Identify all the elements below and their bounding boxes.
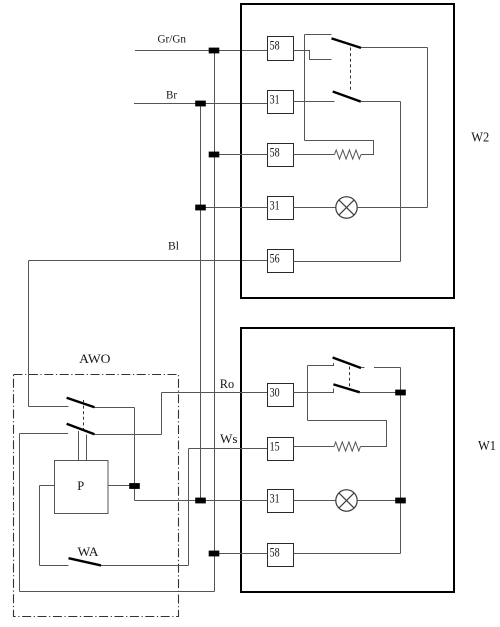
- wire Ws: [189, 448, 268, 450]
- wire bottom rail: [20, 591, 215, 593]
- terminal 31 (W2 row 4): [268, 197, 294, 220]
- wire S6 feed from bottom rail: [20, 433, 69, 435]
- svg-text:Ws: Ws: [220, 432, 238, 446]
- svg-text:AWO: AWO: [79, 351, 110, 366]
- wire S5 output drop to P junction: [134, 408, 136, 501]
- wire Bl horizontal: [29, 260, 268, 262]
- lamp E2: [336, 490, 357, 511]
- junction bus B / Br: [195, 101, 206, 107]
- svg-text:58: 58: [270, 546, 280, 560]
- block W1 border: [241, 328, 454, 592]
- wire S3 blade stub: [361, 367, 365, 369]
- wire resistor R1 return loop: [305, 141, 374, 155]
- wire S6 output riser to Ro: [161, 393, 163, 435]
- wire WA left contact: [40, 565, 69, 567]
- wire switch output drop (x=400): [400, 368, 402, 554]
- wire terminal 15 to resistor R2: [294, 446, 335, 448]
- resistor R1: [335, 150, 362, 159]
- bus B vertical (Br 31-circuit): [200, 104, 202, 501]
- wire lamp E2 to switch drop: [357, 500, 400, 502]
- terminal 58 (W1 row 4): [268, 544, 294, 567]
- svg-text:W2: W2: [471, 131, 489, 146]
- resistor R2: [334, 442, 361, 451]
- terminal 58 (W2 row 1): [268, 37, 294, 61]
- terminal 15 (W1 row 2): [268, 438, 294, 461]
- dashed mechanical link S3-S4: [349, 367, 351, 388]
- wire WA output: [101, 565, 189, 567]
- svg-text:15: 15: [270, 440, 280, 454]
- svg-text:30: 30: [270, 386, 280, 400]
- wire bottom rail riser: [19, 434, 21, 592]
- terminal 56 (W2 row 5): [268, 250, 294, 273]
- junction bus A / W1 row 4: [209, 551, 220, 557]
- junction W1 switch output: [395, 390, 406, 396]
- dashed mechanical link S5-S6: [83, 400, 85, 429]
- wire to switch S2: [294, 101, 335, 103]
- dashed mechanical link S1-S2: [350, 48, 352, 93]
- svg-text:31: 31: [270, 492, 280, 506]
- wire Ro: [162, 392, 268, 394]
- wire S6 output: [95, 434, 162, 436]
- wire S4 output: [360, 392, 401, 394]
- wire switch S3 fixed contact: [308, 363, 334, 366]
- terminal 31 (W1 row 3): [268, 490, 294, 513]
- wire terminal 31 to lamp E1: [294, 207, 336, 209]
- wire P left drop to WA: [39, 486, 41, 566]
- wire Gr/Gn: [135, 50, 268, 52]
- svg-text:31: 31: [270, 93, 280, 107]
- junction bus A / Gr/Gn: [209, 48, 220, 54]
- mechanical link switches to P unit: [79, 431, 87, 460]
- wire common vertical to resistor loop W1: [307, 366, 309, 421]
- svg-text:58: 58: [270, 146, 280, 160]
- wire P right: [108, 485, 135, 487]
- wire switch S1 fixed contact: [305, 34, 332, 36]
- svg-text:Ro: Ro: [220, 377, 234, 391]
- bus A vertical (Gr/Gn 58-circuit): [214, 51, 216, 592]
- wire S3 open contact: [374, 367, 401, 369]
- svg-text:P: P: [77, 479, 84, 493]
- svg-text:31: 31: [270, 199, 280, 213]
- svg-text:58: 58: [270, 39, 280, 53]
- wire terminal 31 to lamp E2: [294, 500, 336, 502]
- wire S1 output drop to lamp row: [427, 48, 429, 208]
- wire terminal 58 to resistor R1: [294, 154, 335, 156]
- wire S2 output drop to terminal 56 row: [400, 102, 402, 262]
- switch S6 blade: [67, 424, 95, 434]
- wire Bl entry to switch S5: [29, 406, 69, 408]
- svg-text:Gr/Gn: Gr/Gn: [158, 34, 187, 46]
- switch S1 blade: [332, 38, 362, 48]
- junction W1 lamp row: [395, 498, 406, 504]
- wire P left: [40, 485, 55, 487]
- wire Bl vertical drop to AWO: [28, 261, 30, 407]
- wire WA output riser to Ws: [188, 449, 190, 566]
- wire S5 output: [95, 407, 135, 409]
- wire bus A to terminal 58: [215, 154, 268, 156]
- P unit box: [55, 461, 109, 514]
- switch S3 blade: [333, 358, 361, 369]
- svg-text:Br: Br: [166, 89, 177, 101]
- wire P unit to terminal 31: [135, 500, 268, 502]
- switch WA blade: [69, 558, 102, 565]
- wire Br: [134, 103, 268, 105]
- wire bus B to terminal 31: [201, 207, 268, 209]
- lamp E1: [336, 197, 357, 218]
- switch S5 blade: [67, 398, 95, 408]
- terminal 58 (W2 row 3): [268, 144, 294, 167]
- wire S2 output: [361, 101, 401, 103]
- junction bus B / W1 row 3: [195, 498, 206, 504]
- terminal 31 (W2 row 2): [268, 91, 294, 114]
- wire S1 output: [361, 47, 428, 49]
- block W2 border: [241, 4, 454, 298]
- block AWO dash-dot border: [14, 375, 179, 617]
- terminal 30 (W1 row 1): [268, 384, 294, 407]
- svg-text:56: 56: [270, 252, 280, 266]
- junction P output / S5 drop: [129, 483, 140, 489]
- svg-text:WA: WA: [78, 544, 100, 559]
- switch S2 blade: [333, 92, 361, 102]
- junction bus A / W2 row 3: [209, 152, 220, 158]
- wire terminal 30 to switch S4: [294, 389, 334, 393]
- wire hook contact below switch S1: [294, 51, 332, 60]
- wire bus A to terminal 58: [215, 553, 268, 555]
- svg-text:Bl: Bl: [168, 240, 179, 252]
- wire common vertical to resistor loop: [304, 35, 306, 141]
- wire terminal 56 to S2 output drop: [294, 261, 401, 263]
- wire terminal 58 to switch drop: [294, 553, 401, 555]
- junction bus B / W2 row 4: [195, 205, 206, 211]
- svg-text:W1: W1: [478, 439, 496, 454]
- wire resistor R2 return loop: [308, 421, 387, 447]
- wire lamp E1 to S1 output drop: [357, 207, 427, 209]
- switch S4 blade: [333, 384, 359, 392]
